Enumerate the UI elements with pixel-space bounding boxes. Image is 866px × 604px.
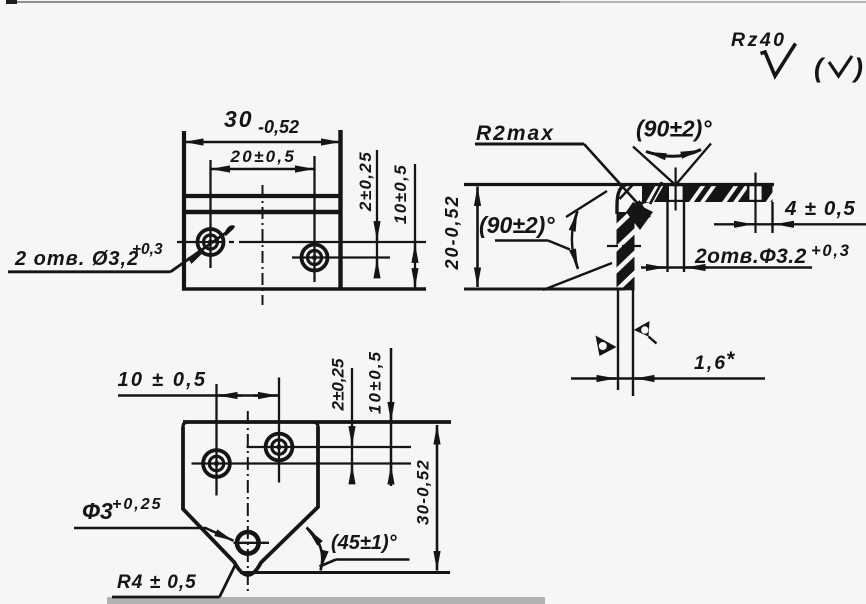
corner hatch stroke — [620, 185, 634, 200]
finish mark right — [634, 321, 650, 337]
part centerline vertical — [262, 185, 264, 305]
svg-text:(90±2)°: (90±2)° — [636, 116, 712, 142]
outline — [183, 427, 318, 575]
svg-text:-0,52: -0,52 — [258, 117, 299, 137]
dim 1,6* — [571, 377, 765, 379]
white hatch slashes flange — [646, 183, 665, 202]
hole edge lines right hole — [747, 185, 749, 201]
svg-text:20±0,5: 20±0,5 — [230, 147, 297, 166]
svg-text:2±0,25: 2±0,25 — [329, 358, 348, 411]
left hole circles — [198, 229, 224, 255]
svg-text:1,6: 1,6 — [694, 352, 727, 374]
dim 2+-0.25 vertical line — [376, 150, 378, 271]
svg-text:(90±2)°: (90±2)° — [479, 212, 555, 238]
svg-text:+0,25: +0,25 — [112, 496, 162, 513]
svg-text:2 отв. Ø3,2: 2 отв. Ø3,2 — [14, 248, 139, 270]
leg extension lines below — [617, 290, 619, 390]
svg-text:30: 30 — [224, 106, 254, 132]
finish mark left — [596, 336, 617, 357]
dim 10+-0.5 vertical — [390, 348, 393, 486]
dim 10+-0.5 vertical line — [414, 164, 416, 289]
svg-text:(45±1)°: (45±1)° — [331, 532, 398, 554]
svg-text:2±0,25: 2±0,25 — [356, 151, 375, 212]
ext line right hole vertical — [313, 156, 315, 282]
right edge — [338, 130, 342, 291]
white hatch slashes leg — [614, 207, 637, 293]
svg-text:4 ± 0,5: 4 ± 0,5 — [784, 197, 856, 220]
centerline left flange hole — [674, 168, 676, 211]
bottom ext line — [464, 288, 625, 291]
small hole — [237, 532, 259, 554]
left hole — [203, 450, 230, 477]
bottom ext line — [240, 571, 450, 574]
svg-text:R2max: R2max — [476, 122, 555, 145]
inner bend arc — [634, 201, 649, 217]
svg-text:20-0,52: 20-0,52 — [442, 194, 462, 270]
left hole centerline horizontal — [177, 241, 426, 243]
dim 30 line — [184, 141, 341, 143]
leg holes centerline dashdot — [607, 245, 618, 247]
dim 10 top — [118, 394, 279, 396]
right end extension — [771, 202, 773, 233]
scan top edge artifact — [6, 1, 562, 3]
top bend line 2 — [184, 210, 341, 215]
svg-text:R4 ± 0,5: R4 ± 0,5 — [117, 572, 197, 593]
right hole centerline horizontal — [292, 256, 390, 258]
top line + ext — [183, 420, 451, 424]
svg-text:*: * — [726, 348, 735, 371]
dim 2+-0.25 vertical — [351, 368, 353, 480]
left edge — [182, 131, 186, 291]
dim 20 line — [211, 168, 315, 170]
ext line left hole vertical — [209, 160, 211, 268]
svg-text:+0,3: +0,3 — [132, 241, 163, 258]
hole edge lines left hole — [666, 202, 668, 272]
center dash line — [247, 411, 249, 591]
svg-text:10±0,5: 10±0,5 — [366, 350, 385, 414]
dim 30-0.52 — [436, 425, 439, 571]
dim 4+-0.5 — [714, 223, 866, 225]
L-section solid — [642, 183, 773, 202]
svg-text:10±0,5: 10±0,5 — [391, 164, 410, 224]
top surface + ext line — [464, 183, 774, 186]
svg-text:Ф3: Ф3 — [82, 498, 113, 524]
svg-text:30-0,52: 30-0,52 — [414, 459, 433, 525]
right hole circles — [302, 245, 328, 271]
outer bend arc — [617, 185, 627, 215]
svg-text:2отв.Ф3.2: 2отв.Ф3.2 — [694, 245, 807, 268]
svg-text:+0,3: +0,3 — [811, 242, 851, 260]
svg-text:10 ± 0,5: 10 ± 0,5 — [118, 369, 208, 391]
scan bottom bar artifact — [107, 597, 545, 604]
bottom edge + right extension — [182, 287, 426, 291]
svg-text:Rz40: Rz40 — [731, 29, 787, 51]
top bend line 1 — [184, 194, 341, 198]
right hole — [266, 434, 293, 461]
dim 20-0.52 — [476, 187, 479, 288]
hole voids in flange — [669, 186, 683, 200]
centerline right flange hole — [754, 173, 756, 234]
label 2otv f3.2 — [641, 266, 812, 269]
